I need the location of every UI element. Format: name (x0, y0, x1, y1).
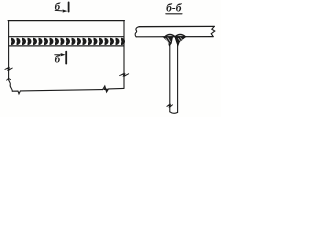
break zig on bottom edge (103, 86, 124, 92)
weld seam scallops (11, 38, 125, 45)
section arrow bottom (55, 54, 63, 56)
section title underline (166, 13, 182, 15)
flange top line (section view) (139, 25, 214, 27)
flange bottom line (136, 36, 213, 38)
svg-text:б-б: б-б (166, 3, 183, 15)
break mark on web left line (167, 104, 173, 107)
break mark on left edge (5, 67, 13, 70)
plate left edge (8, 21, 10, 79)
break mark on right edge (119, 73, 129, 76)
web left line (169, 37, 171, 112)
left edge break squiggle (8, 78, 12, 91)
weld seam band top line (9, 36, 124, 38)
plate right edge (123, 21, 125, 89)
section cut stroke bottom (65, 52, 67, 64)
weld cap left (165, 35, 175, 37)
web right line (177, 37, 179, 112)
svg-text:б: б (55, 1, 61, 13)
weld seam band bottom line (9, 45, 124, 47)
plate bottom edge (12, 90, 102, 94)
section cut stroke top (68, 2, 70, 11)
flange right break (211, 26, 215, 36)
weld cap right (175, 35, 185, 37)
section arrow top (55, 9, 64, 12)
flange left break (135, 27, 139, 37)
fillet weld left (section, blackened) (163, 37, 172, 46)
svg-text:б: б (55, 54, 61, 66)
fillet weld right (section, blackened) (175, 37, 186, 46)
left edge break tick (7, 78, 11, 80)
web bottom break (170, 112, 178, 114)
plate top edge (left view) (8, 20, 124, 22)
